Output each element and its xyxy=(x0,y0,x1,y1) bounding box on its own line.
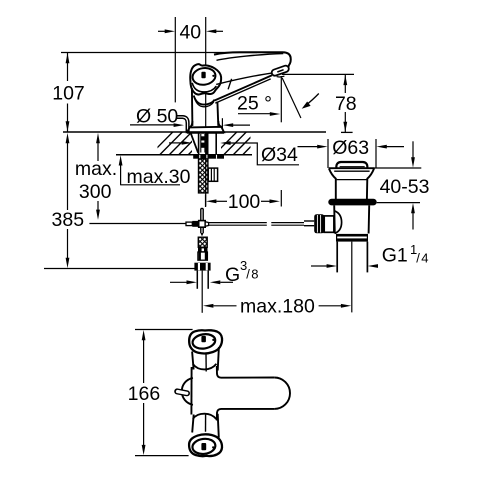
svg-text:max.: max. xyxy=(75,158,117,180)
drain bottom nut xyxy=(336,234,368,242)
25deg vertical reference xyxy=(280,76,282,122)
pop-up cross left stub xyxy=(186,222,192,226)
drain flange sides xyxy=(329,168,336,199)
svg-text:166: 166 xyxy=(128,383,161,405)
plan view body right edge lower xyxy=(217,409,221,421)
dimension O50 right arrow xyxy=(223,123,233,127)
drain flange top xyxy=(329,167,374,169)
faucet handle knob outline xyxy=(190,64,221,94)
plan view body right edge upper xyxy=(217,366,221,378)
aerator outline xyxy=(275,69,286,73)
top reference line xyxy=(61,52,257,54)
spout underside inner xyxy=(215,79,270,103)
svg-text:4: 4 xyxy=(421,250,428,265)
svg-text:Ø34: Ø34 xyxy=(261,144,298,166)
drain seal ring xyxy=(332,199,374,206)
faucet base plate xyxy=(187,127,224,133)
svg-text:/: / xyxy=(416,250,420,265)
pop-up rod vertical upper xyxy=(200,209,202,221)
hose coupler threaded xyxy=(198,237,207,247)
drain side port arc xyxy=(334,211,341,234)
plan view body joint upper xyxy=(193,364,217,370)
dimension G3/8 arrows xyxy=(170,281,187,283)
plan view handle top ellipse xyxy=(192,333,217,351)
shank tube left edges xyxy=(198,133,200,155)
svg-text:/: / xyxy=(246,267,250,282)
dimension G1 1/4 arrows xyxy=(311,265,327,267)
svg-text:G: G xyxy=(225,264,240,286)
dimension max.30 arrow xyxy=(120,163,122,185)
dimension O63 extension lines xyxy=(327,139,329,168)
dimension 100 right extension xyxy=(280,190,282,207)
pop-up rod right segment 1 xyxy=(209,222,267,224)
faucet base flare right xyxy=(218,121,221,127)
dimension 40 extension line left xyxy=(174,17,176,102)
spout upper crease xyxy=(216,73,273,85)
dimension 385 line xyxy=(67,141,69,259)
385 bottom reference line xyxy=(44,268,195,270)
plan view spout arm bottom xyxy=(221,408,274,410)
dimension 78 top reference line xyxy=(282,73,354,75)
pull rod bent end xyxy=(176,116,189,133)
spout top edge inner xyxy=(217,54,284,61)
svg-text:300: 300 xyxy=(79,181,112,203)
spout nose xyxy=(283,52,291,67)
deck top line xyxy=(63,131,326,133)
plan view spout end xyxy=(274,378,290,409)
aerator inner line xyxy=(277,70,283,72)
pop-up cross body xyxy=(199,221,206,228)
spout top edge outer xyxy=(214,52,283,54)
faucet base flare left xyxy=(189,121,192,127)
faucet body left edge xyxy=(191,88,194,126)
mounting washer xyxy=(193,155,224,159)
hose nut xyxy=(194,263,210,271)
svg-text:40-53: 40-53 xyxy=(380,176,430,198)
deck hatch right xyxy=(214,132,266,155)
plan view handle top dot xyxy=(212,339,214,341)
dimension 25deg leader arrow xyxy=(238,113,270,115)
dimension O34 arrows xyxy=(169,142,182,144)
spout tick mark xyxy=(228,79,232,90)
dimension 40-53 bottom reference line xyxy=(377,202,420,204)
spout underside outer xyxy=(215,75,273,100)
side fitting xyxy=(208,168,217,181)
dimension 107 line xyxy=(67,53,69,133)
svg-text:107: 107 xyxy=(52,82,85,104)
aerator lower lip xyxy=(277,75,285,78)
dimension 40 arrows xyxy=(158,30,223,32)
plan view body left edge xyxy=(190,367,192,415)
plan view handle bottom ellipse xyxy=(192,438,217,456)
plan view handle bottom cap xyxy=(189,434,222,456)
dimension 100 arrows xyxy=(206,199,216,203)
dimension 40-53 top reference line xyxy=(374,167,422,169)
dimension max.30 underline xyxy=(120,184,180,186)
svg-text:25 °: 25 ° xyxy=(237,93,272,115)
svg-text:40: 40 xyxy=(179,21,201,43)
plan view handle bottom mark xyxy=(201,443,206,450)
deck hatch left xyxy=(150,132,211,155)
dimension max.300 line xyxy=(97,141,99,212)
shank tube right edges xyxy=(207,133,209,155)
plan view handle bottom dot xyxy=(212,446,214,448)
dimension 166 top reference line xyxy=(135,329,193,331)
hose crimp xyxy=(198,252,208,260)
svg-text:8: 8 xyxy=(251,267,258,282)
hose collar xyxy=(198,248,208,252)
plan view handle top mark xyxy=(201,336,206,342)
svg-text:100: 100 xyxy=(228,191,261,213)
supply pipe xyxy=(196,271,198,289)
deck bottom line xyxy=(116,154,252,156)
threaded shank xyxy=(199,159,208,193)
pop-up rod long left xyxy=(89,223,186,225)
faucet handle cap lower rim xyxy=(192,83,216,92)
faucet centerline xyxy=(205,17,207,207)
pop-up rod vertical lower xyxy=(200,227,202,233)
dimension 166 line xyxy=(143,340,145,446)
25deg curved arrow xyxy=(307,94,319,105)
plan view valve bulge xyxy=(182,378,193,405)
drain cap xyxy=(336,162,367,168)
faucet body skirt joint upper xyxy=(194,96,215,105)
faucet handle dot xyxy=(212,75,214,77)
plan view handle top skirt xyxy=(192,352,194,370)
svg-text:385: 385 xyxy=(52,209,85,231)
dimension max.180 arrows xyxy=(203,304,213,308)
svg-text:G1: G1 xyxy=(382,244,408,266)
dimension 166 bottom reference line xyxy=(135,455,189,457)
dimension O50 right extension xyxy=(221,118,223,131)
dimension O50 leader arrow xyxy=(130,124,175,126)
plan view spout arm top xyxy=(221,377,274,379)
plan view body joint lower xyxy=(193,414,217,420)
pop-up cross knurl xyxy=(192,221,198,227)
svg-text:Ø63: Ø63 xyxy=(332,137,369,159)
shank inner details xyxy=(201,136,205,140)
drain centerline xyxy=(351,242,353,313)
supply pipe centerline xyxy=(201,271,203,313)
faucet body skirt joint lower xyxy=(195,98,214,107)
pop-up rod right segment 2 xyxy=(271,222,304,224)
dimension O63 arrows xyxy=(298,146,319,148)
plan view pin xyxy=(177,391,187,393)
faucet handle cap ellipse xyxy=(191,67,216,87)
faucet body right edge xyxy=(216,102,219,126)
dimension 100 left extension xyxy=(205,195,207,208)
faucet handle mark xyxy=(201,72,205,78)
drain knob connector xyxy=(324,216,334,232)
drain tailpipe xyxy=(336,242,338,273)
pull rod through deck xyxy=(191,133,198,153)
dimension 40-53 line xyxy=(412,141,414,229)
svg-text:78: 78 xyxy=(335,93,357,115)
drain rod to knob xyxy=(304,220,314,222)
drain knurled knob xyxy=(314,214,324,233)
plan view handle top cap xyxy=(189,330,222,353)
dimension 78 line xyxy=(344,74,346,132)
drain flange inner lines xyxy=(334,170,369,172)
plan view handle bottom skirt xyxy=(192,415,194,433)
25deg inclined reference xyxy=(282,78,301,118)
svg-text:max.180: max.180 xyxy=(240,296,315,318)
svg-text:Ø 50: Ø 50 xyxy=(136,105,178,127)
pop-up cross right taper xyxy=(205,222,208,227)
drain body below seal xyxy=(333,205,336,233)
